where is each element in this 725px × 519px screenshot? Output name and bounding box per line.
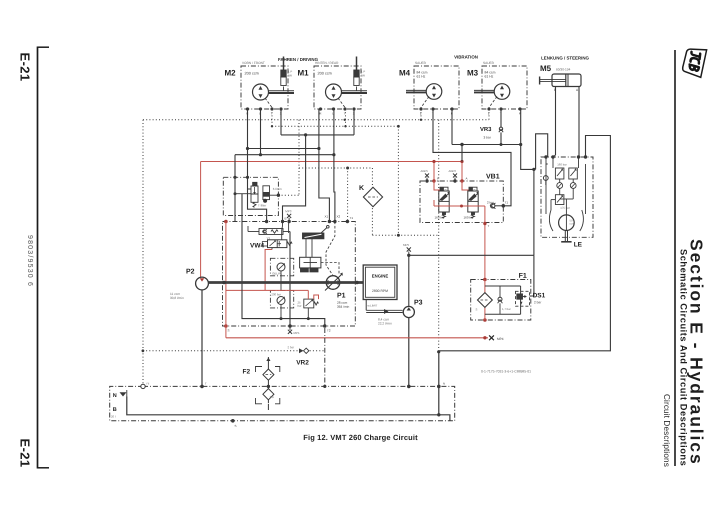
svg-text:200 ccm: 200 ccm: [244, 72, 258, 76]
svg-text:9803/9530 6: 9803/9530 6: [26, 235, 33, 287]
drain dotted stub M4 L: [420, 109, 422, 120]
svg-text:BR: BR: [288, 74, 292, 78]
svg-text:B: B: [284, 217, 286, 221]
drain dotted stub M1 T: [345, 109, 347, 126]
red charge return bus: [226, 337, 488, 339]
drain line dotted top edge: [143, 119, 489, 121]
svg-text:160 bar: 160 bar: [557, 162, 567, 166]
svg-text:w.LIMIT: w.LIMIT: [367, 304, 377, 308]
pump P2: [170, 269, 208, 301]
svg-text:MP5: MP5: [403, 243, 410, 247]
svg-text:VIBRATION: VIBRATION: [454, 54, 478, 59]
wire to pressure switch DS1: [530, 255, 534, 296]
drain dotted vertical x398: [397, 126, 399, 235]
svg-text:2 bar: 2 bar: [534, 300, 542, 304]
filter F2: [242, 357, 279, 404]
VR2 drain dotted line: [143, 350, 299, 352]
steering unit LE box: [541, 157, 593, 237]
drain dotted vertical to flushing valve: [298, 120, 300, 195]
flushing box port: [277, 194, 280, 197]
svg-text:ccm: ccm: [569, 223, 574, 226]
measuring point MP4: [489, 335, 494, 340]
red charge circuit inside pump box: [265, 250, 272, 291]
motor M4: [399, 61, 459, 116]
flushing shuttle valve: [251, 182, 258, 207]
svg-text:2 bar: 2 bar: [287, 345, 294, 349]
drain header lower dotted line: [272, 125, 398, 127]
wire LE left loop: [546, 157, 548, 164]
svg-text:M3: M3: [467, 69, 479, 78]
wire M2 X / M1 X header: [280, 109, 282, 135]
VB1 red gallery: [434, 205, 485, 207]
check valve VR3: [480, 109, 503, 145]
red drop to VB1 port P: [433, 162, 435, 182]
svg-text:61 Hz: 61 Hz: [416, 75, 425, 79]
svg-text:S: S: [227, 329, 229, 333]
svg-text:F1: F1: [519, 273, 527, 280]
red line through F1: [484, 280, 486, 293]
svg-text:364 /min: 364 /min: [337, 305, 349, 309]
svg-text:M1: M1: [297, 69, 309, 78]
drain dotted stub M3 L: [488, 109, 490, 120]
svg-text:S: S: [234, 424, 236, 428]
flushing relief valve: [258, 186, 282, 208]
svg-text:M4: M4: [399, 69, 411, 78]
case drain line T2 to tank: [324, 328, 326, 386]
valve block VB1 box: [420, 181, 503, 223]
wire M2 L down: [260, 109, 262, 155]
pump box bottom ports: [224, 324, 228, 328]
svg-text:0-1-7175-7031-3-6+1-C88985-01: 0-1-7175-7031-3-6+1-C88985-01: [481, 370, 531, 374]
pressure switch DS1: [516, 291, 546, 306]
wire M3 P to steering net: [521, 109, 534, 255]
K filter drain dotted line: [371, 208, 373, 235]
cylinder M5: [540, 64, 581, 92]
filter F1 box: [471, 280, 531, 321]
drain line dotted box left edge: [142, 120, 144, 387]
servo cylinder: [300, 257, 321, 272]
dashed servo feedback: [326, 222, 335, 276]
LE top ports: [544, 155, 547, 158]
svg-text:20 l: 20 l: [111, 415, 116, 419]
svg-text:BR: BR: [361, 74, 365, 78]
svg-text:E-21: E-21: [18, 53, 33, 82]
wire engine to P3 shaft: [365, 300, 367, 311]
wire pilot to servo: [305, 239, 307, 257]
red drop VB1 to F1: [484, 206, 486, 280]
pump P3: [378, 300, 423, 326]
svg-text:VB1: VB1: [486, 174, 500, 181]
svg-text:LENKUNG / STEERING: LENKUNG / STEERING: [541, 55, 589, 60]
wire MP3-MP1 through line: [288, 222, 290, 234]
dotted drain to T1: [347, 168, 349, 222]
svg-text:M2: M2: [224, 69, 236, 78]
svg-text:DS1: DS1: [533, 292, 546, 299]
boost check valve: [248, 226, 290, 235]
filter K: [359, 185, 383, 207]
svg-text:P2: P2: [186, 269, 195, 276]
charge pump box: [270, 258, 293, 276]
svg-text:175 bar: 175 bar: [560, 206, 570, 210]
svg-text:T1: T1: [349, 216, 353, 220]
svg-text:F2: F2: [242, 369, 250, 376]
wire X header down to port B: [283, 135, 306, 222]
svg-text:N: N: [113, 393, 117, 399]
svg-text:ENGINE: ENGINE: [372, 273, 389, 278]
svg-text:AGP6: AGP6: [448, 169, 456, 173]
relief valve VB1 right cartridge: [463, 187, 478, 219]
svg-text:Circuit Descriptions: Circuit Descriptions: [662, 394, 671, 467]
svg-text:T: T: [205, 382, 207, 386]
svg-text:Fig 12. VMT 260 Charge Circuit: Fig 12. VMT 260 Charge Circuit: [303, 433, 418, 442]
wire M4 P to charge junction: [451, 109, 453, 145]
svg-text:K: K: [359, 185, 364, 192]
engine box: [363, 265, 397, 300]
check valve VB1 outlet: [487, 201, 503, 209]
flushing valve box: [223, 177, 278, 215]
charge inlet arrow at P2: [199, 277, 203, 280]
svg-text:T: T: [271, 112, 273, 116]
wire VW4 ports: [281, 230, 283, 240]
svg-text:E-21: E-21: [18, 439, 33, 468]
F1 bypass check valve: [498, 286, 511, 314]
tank port dots: [200, 385, 204, 389]
drain dotted junction dots: [344, 119, 346, 121]
svg-text:N: N: [443, 382, 445, 386]
pump assembly box: [223, 222, 356, 327]
servo pilot valve: [303, 226, 330, 239]
right margin rule: [674, 50, 676, 466]
svg-text:S: S: [475, 308, 477, 312]
main return line: [127, 397, 439, 415]
JCB logo: [682, 47, 707, 77]
red to bottom red bus: [225, 326, 227, 338]
svg-text:MP3: MP3: [285, 209, 292, 213]
svg-text:T2: T2: [327, 329, 331, 333]
wire M5 A to LE: [578, 87, 580, 158]
svg-text:T: T: [487, 224, 489, 228]
wire P2 suction: [201, 290, 203, 387]
main drive shaft: [208, 281, 363, 284]
charge line red horizontal: [201, 161, 462, 163]
svg-text:T1: T1: [504, 201, 508, 205]
wire relief to tank line: [307, 308, 309, 319]
charge relief box: [270, 290, 293, 308]
svg-text:P3: P3: [414, 300, 423, 307]
wire P3 suction to tank: [408, 318, 410, 387]
pump P1: [325, 273, 350, 309]
LE steering column: [561, 231, 571, 242]
wire L header: [235, 154, 334, 156]
red pump box left edge line: [225, 222, 227, 327]
wire M2 R / M1 R branch to X1: [248, 148, 319, 150]
VB1 red pilot left: [434, 181, 440, 190]
LE internals: [543, 157, 585, 215]
wire LE right loop to tank: [439, 136, 611, 351]
wire P3 pressure line: [409, 254, 534, 256]
return drop from steering: [439, 352, 450, 421]
motor M2: [224, 57, 294, 116]
charge line red drop to P2: [200, 162, 202, 278]
motor M3: [467, 61, 527, 116]
svg-text:T: T: [344, 112, 346, 116]
svg-text:200 ccm: 200 ccm: [317, 72, 331, 76]
svg-text:200 bar: 200 bar: [271, 292, 281, 296]
drain dotted stub M2 T: [271, 109, 273, 126]
wire case drain gallery: [242, 194, 325, 326]
wire M5 B to LE: [555, 87, 557, 156]
pump box top ports: [224, 220, 228, 224]
red drop to VB1 port A: [461, 162, 463, 182]
svg-text:bar: bar: [297, 304, 301, 308]
wire M1 L to X2: [334, 109, 335, 222]
svg-text:1,7 bar: 1,7 bar: [502, 307, 511, 311]
wire L header into pump box: [234, 155, 236, 222]
wire charge junction down (red): [461, 145, 463, 162]
VB1 port A dot: [460, 179, 463, 182]
svg-text:90µ: 90µ: [270, 395, 275, 399]
svg-text:Fil: Fil: [146, 382, 149, 386]
check valve VR2: [287, 345, 309, 366]
svg-text:P1: P1: [337, 293, 346, 300]
svg-text:160 bar: 160 bar: [434, 216, 444, 220]
svg-text:61 Hz: 61 Hz: [484, 75, 493, 79]
left margin rule: [37, 47, 39, 469]
svg-text:22,2 l/min: 22,2 l/min: [378, 322, 392, 326]
svg-text:3 bar: 3 bar: [483, 136, 491, 140]
LE rotor: [549, 210, 583, 231]
svg-text:P: P: [437, 177, 439, 181]
svg-text:SAUER: SAUER: [483, 61, 495, 65]
svg-text:T filter: T filter: [258, 204, 266, 208]
svg-text:M5: M5: [540, 64, 552, 73]
svg-text:B: B: [113, 407, 117, 413]
relief valve 25 bar: [297, 299, 318, 308]
svg-text:MP4: MP4: [497, 337, 504, 341]
solenoid valve VW4: [250, 236, 292, 249]
svg-text:Section E - Hydraulics: Section E - Hydraulics: [687, 239, 707, 466]
wire M4 T to tank port T1: [433, 109, 511, 206]
svg-text:AGP5: AGP5: [420, 169, 428, 173]
filter F1 diamond: [475, 293, 492, 312]
measuring point MP1: [288, 330, 292, 334]
relief valve VB1 left cartridge: [434, 187, 449, 219]
wire M2 R to port B: [248, 109, 267, 222]
svg-text:60/30-194: 60/30-194: [556, 68, 571, 72]
svg-text:160 bar: 160 bar: [463, 216, 473, 220]
motor M1: [297, 57, 367, 116]
svg-text:HINTEN / REAR: HINTEN / REAR: [315, 61, 339, 65]
VB1 port P dot: [432, 179, 435, 182]
svg-text:Schematic Circuits And Circuit: Schematic Circuits And Circuit Descripti…: [679, 249, 689, 466]
F1 bypass loop: [485, 285, 521, 287]
svg-text:30,8 l/min: 30,8 l/min: [170, 296, 184, 300]
svg-text:MP1: MP1: [293, 331, 300, 335]
svg-text:SAUER: SAUER: [415, 61, 427, 65]
svg-text:VR2: VR2: [296, 360, 309, 367]
svg-text:X2: X2: [336, 215, 340, 219]
wire charge pump suction: [280, 271, 282, 290]
svg-text:VR3: VR3: [480, 127, 492, 133]
K dotted tap line: [299, 167, 372, 169]
VB1 red pilot right: [462, 181, 469, 190]
svg-text:X1: X1: [324, 215, 328, 219]
tank breather port: [141, 384, 145, 388]
svg-text:6 l/min: 6 l/min: [273, 187, 282, 191]
svg-text:A: A: [465, 177, 467, 181]
svg-text:LE: LE: [574, 242, 583, 249]
flushing connections: [248, 177, 252, 189]
svg-text:VORN / FRONT: VORN / FRONT: [242, 61, 265, 65]
tank box: [110, 386, 455, 420]
drain line dotted right edge: [438, 120, 440, 352]
svg-text:2800 RPM: 2800 RPM: [372, 289, 388, 293]
